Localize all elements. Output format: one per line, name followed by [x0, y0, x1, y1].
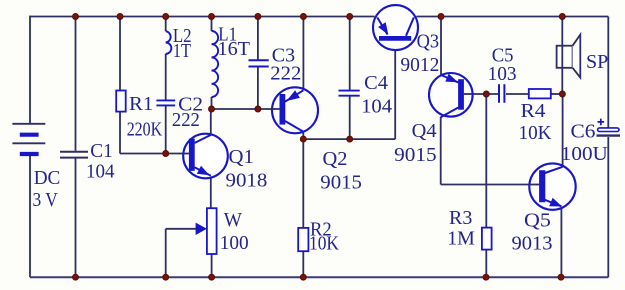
node top L2 [163, 14, 169, 20]
wire C1 column bottom [75, 158, 77, 277]
wire Q5 emitter down [560, 206, 562, 277]
wire R1 column bottom [119, 112, 121, 154]
node top C3 [255, 14, 261, 20]
wire Q4 collector to Q5 base [441, 184, 540, 186]
transistor Q5 circle [529, 163, 575, 209]
wire Q4 emitter to top rail [440, 17, 442, 76]
svg-text:SP: SP [586, 51, 608, 73]
potentiometer W wiper arrow [196, 223, 207, 235]
wire R4 to node [551, 93, 563, 95]
svg-text:Q3: Q3 [417, 31, 440, 53]
node bottom wiper [163, 274, 169, 280]
wire L1 bottom lead [211, 97, 213, 109]
capacitor C3 plates [249, 60, 269, 66]
transistor Q2 circle [272, 87, 318, 133]
wire Q1 base [120, 153, 191, 155]
svg-text:3 V: 3 V [33, 189, 59, 211]
svg-text:R4: R4 [521, 100, 546, 122]
capacitor C5 plates [499, 84, 504, 103]
svg-text:222: 222 [172, 109, 200, 131]
node bottom C1 [73, 274, 79, 280]
svg-text:100: 100 [220, 232, 249, 254]
wire Q1 emitter to W [210, 176, 212, 209]
wire C5 to R4 [506, 93, 529, 95]
wire C3 bottom lead [257, 67, 259, 109]
svg-text:9013: 9013 [512, 233, 553, 255]
wire C4 bottom lead [349, 96, 351, 139]
svg-text:220K: 220K [127, 119, 163, 141]
wire bottom rail [30, 276, 608, 278]
node bottom W [209, 274, 215, 280]
wire Q1 collector [210, 109, 212, 136]
svg-text:Q5: Q5 [524, 210, 551, 232]
svg-text:C1: C1 [90, 140, 113, 162]
svg-text:C4: C4 [364, 72, 388, 94]
transistor Q3 collector line [406, 18, 414, 36]
svg-text:16T: 16T [218, 38, 251, 60]
node top SP [559, 14, 565, 20]
capacitor C4 plates [339, 91, 360, 96]
transistor Q4 base lead inside [463, 93, 472, 95]
speaker SP horn [573, 35, 581, 78]
wire right rail below C6 [607, 137, 609, 277]
transistor Q2 base bar [279, 94, 285, 125]
potentiometer W body [207, 208, 217, 254]
svg-text:9018: 9018 [226, 170, 268, 192]
svg-text:Q1: Q1 [229, 146, 254, 168]
transistor Q2 base lead inside [272, 108, 281, 110]
capacitor C6 plus sign [598, 119, 605, 126]
svg-text:10K: 10K [309, 233, 339, 255]
wire SP column [561, 17, 563, 95]
wire C2 to Q1 base [165, 106, 167, 154]
wire C1 column top [75, 17, 77, 151]
svg-text:1T: 1T [173, 40, 191, 62]
svg-text:Q4: Q4 [412, 120, 437, 142]
wire L2 top lead [165, 17, 167, 32]
resistor R3 [482, 228, 492, 250]
wire through speaker [561, 46, 563, 68]
svg-text:9015: 9015 [320, 171, 362, 193]
svg-text:1M: 1M [447, 228, 475, 250]
wire Q2 emitter to top rail [302, 17, 304, 91]
transistor Q3 emitter arrow [378, 22, 388, 35]
capacitor C6 bottom plate [597, 134, 621, 136]
wire Q4 base to C5 [463, 93, 498, 95]
resistor R1 [116, 91, 126, 112]
svg-text:Q2: Q2 [323, 148, 348, 170]
transistor Q1 collector line [195, 135, 211, 143]
transistor Q3 base bar [379, 36, 411, 41]
wire Q2 base [212, 108, 281, 110]
wire Q2 collector down [302, 131, 304, 228]
node top C1 [73, 14, 79, 20]
battery B1 short plate 2 [20, 152, 39, 156]
node top Q2 [300, 14, 306, 20]
wire left rail above battery [29, 16, 31, 123]
transistor Q1 base bar [189, 139, 195, 171]
svg-text:R1: R1 [129, 93, 153, 115]
inductor L2 [166, 31, 172, 54]
capacitor C2 plates [156, 100, 175, 105]
svg-text:C6: C6 [571, 121, 596, 143]
transistor Q4 collector line [441, 108, 459, 118]
transistor Q3 emitter line [377, 18, 387, 35]
node top C4 [347, 14, 353, 20]
wire Q2 collector to Q3 base [303, 138, 395, 140]
svg-text:R3: R3 [449, 207, 472, 229]
wire R3 bottom [485, 250, 487, 278]
battery B1 long plate 1 [12, 123, 45, 125]
node Q1 base junction [163, 151, 169, 157]
transistor Q4 base bar [458, 79, 464, 110]
transistor Q5 collector line [544, 167, 563, 174]
speaker SP box [557, 46, 573, 68]
svg-text:222: 222 [270, 62, 301, 84]
transistor Q2 emitter arrow [287, 90, 300, 101]
wire R2 bottom [302, 251, 304, 277]
node R4 right junction [559, 91, 565, 97]
node bottom R3 [483, 274, 489, 280]
transistor Q4 emitter line [441, 75, 458, 82]
node C3 bottom junction [255, 106, 261, 112]
inductor L1 [212, 31, 219, 97]
wire Q4 collector down [440, 117, 442, 185]
wire C4 top lead [349, 17, 351, 91]
node bottom R2 [300, 274, 306, 280]
battery B1 short plate 1 [20, 133, 39, 137]
node top R1 [117, 14, 123, 20]
wire Q3 base column [394, 40, 396, 139]
node top L1 [209, 14, 215, 20]
node top Q4 [438, 14, 444, 20]
transistor Q1 emitter line [195, 167, 211, 176]
node Q2 collector junction [300, 136, 306, 142]
svg-text:104: 104 [86, 160, 115, 182]
transistor Q5 base bar [539, 170, 545, 202]
transistor Q2 emitter line [285, 90, 303, 101]
wire Q5 collector up [562, 94, 564, 167]
node L1 bottom junction [209, 106, 215, 112]
capacitor C1 plates [60, 152, 88, 158]
svg-text:W: W [224, 209, 242, 231]
wire W wiper down [165, 229, 167, 277]
transistor Q1 base lead inside [183, 153, 190, 155]
node Q4 base junction [483, 91, 489, 97]
svg-text:104: 104 [361, 96, 392, 118]
resistor R2 [298, 228, 308, 251]
wire top rail left of Q3 [30, 16, 375, 18]
svg-text:9012: 9012 [400, 54, 439, 76]
battery B1 long plate 2 [12, 142, 45, 144]
wire W wiper horizontal [166, 228, 198, 230]
capacitor C6 top plate [598, 128, 619, 132]
svg-text:103: 103 [488, 63, 517, 85]
wire top rail right of Q3 [417, 16, 609, 18]
transistor Q5 base lead inside [530, 184, 541, 186]
resistor R4 [529, 89, 551, 98]
transistor Q3 circle [373, 5, 418, 50]
wire W bottom [211, 254, 213, 277]
svg-text:9015: 9015 [394, 144, 437, 166]
transistor Q4 emitter arrow [445, 74, 458, 83]
wire L1 top lead [211, 17, 213, 32]
transistor Q4 circle [429, 73, 473, 117]
wire L2 to C2 [165, 54, 167, 100]
svg-text:10K: 10K [519, 122, 553, 144]
wire left rail below battery [29, 156, 31, 278]
transistor Q1 emitter arrow [197, 166, 210, 176]
transistor Q5 emitter line [544, 199, 562, 206]
node bottom Q5 [558, 274, 564, 280]
node C4 bottom junction [347, 136, 353, 142]
svg-text:DC: DC [34, 167, 61, 189]
transistor Q1 circle [183, 134, 228, 179]
transistor Q2 collector line [285, 121, 303, 132]
transistor Q5 emitter arrow [549, 198, 562, 207]
wire C3 top lead [257, 17, 259, 60]
svg-text:100U: 100U [561, 143, 609, 165]
wire R3 column top [485, 94, 487, 228]
wire right rail above C6 [607, 17, 609, 129]
wire R1 column top [119, 17, 121, 91]
